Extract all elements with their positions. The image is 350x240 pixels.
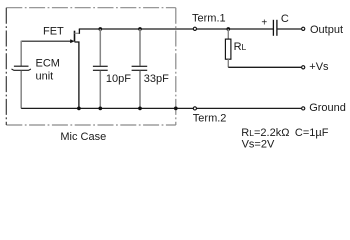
svg-text:C=1µF: C=1µF: [295, 127, 329, 139]
svg-text:Term.2: Term.2: [193, 113, 227, 125]
svg-text:unit: unit: [36, 70, 54, 82]
node: junction top rail / 10pF: [98, 27, 102, 31]
wire: bottom ground rail: [21, 107, 301, 109]
node: junction top rail / RL: [226, 27, 230, 31]
node: junction bottom rail / FET source: [77, 107, 81, 111]
node: junction bottom rail / 33pF: [138, 107, 142, 111]
resistor RL: [225, 29, 231, 67]
wire: +Vs supply: [228, 66, 301, 68]
svg-text:Vs=2V: Vs=2V: [242, 138, 275, 150]
svg-text:33pF: 33pF: [144, 73, 169, 85]
wire: top rail (drain to coupling cap): [79, 28, 274, 30]
svg-text:Term.1: Term.1: [192, 12, 226, 24]
svg-text:+Vs: +Vs: [309, 61, 329, 73]
wire: capacitor C to output terminal: [277, 28, 301, 30]
node Output terminal: [302, 27, 305, 30]
node: junction bottom rail / 10pF: [98, 107, 102, 111]
capacitor 33pF: [132, 29, 148, 108]
electret capsule (ECM element): [12, 41, 31, 109]
svg-text:Mic Case: Mic Case: [60, 131, 106, 143]
node: junction bottom rail / case ground: [174, 107, 178, 111]
capacitor 10pF: [93, 29, 108, 108]
svg-text:RL: RL: [234, 41, 247, 53]
node Term.2 terminal: [193, 107, 196, 110]
capacitor C (output coupling): [273, 20, 277, 36]
svg-text:ECM: ECM: [36, 58, 60, 70]
node: junction top rail / 33pF: [138, 27, 142, 31]
svg-text:+: +: [261, 17, 267, 28]
wire: ECM box top edge / FET gate wire: [21, 40, 71, 42]
mic case enclosure (dash-dot boundary): [6, 8, 176, 125]
svg-text:10pF: 10pF: [106, 73, 131, 85]
svg-text:Ground: Ground: [309, 102, 346, 114]
svg-text:FET: FET: [43, 26, 64, 38]
node +Vs terminal: [302, 66, 305, 69]
transistor FET (JFET): [70, 29, 79, 108]
svg-text:C: C: [281, 13, 289, 25]
node Term.1 terminal: [193, 27, 196, 30]
node Ground terminal: [302, 107, 305, 110]
svg-text:Output: Output: [310, 24, 343, 36]
